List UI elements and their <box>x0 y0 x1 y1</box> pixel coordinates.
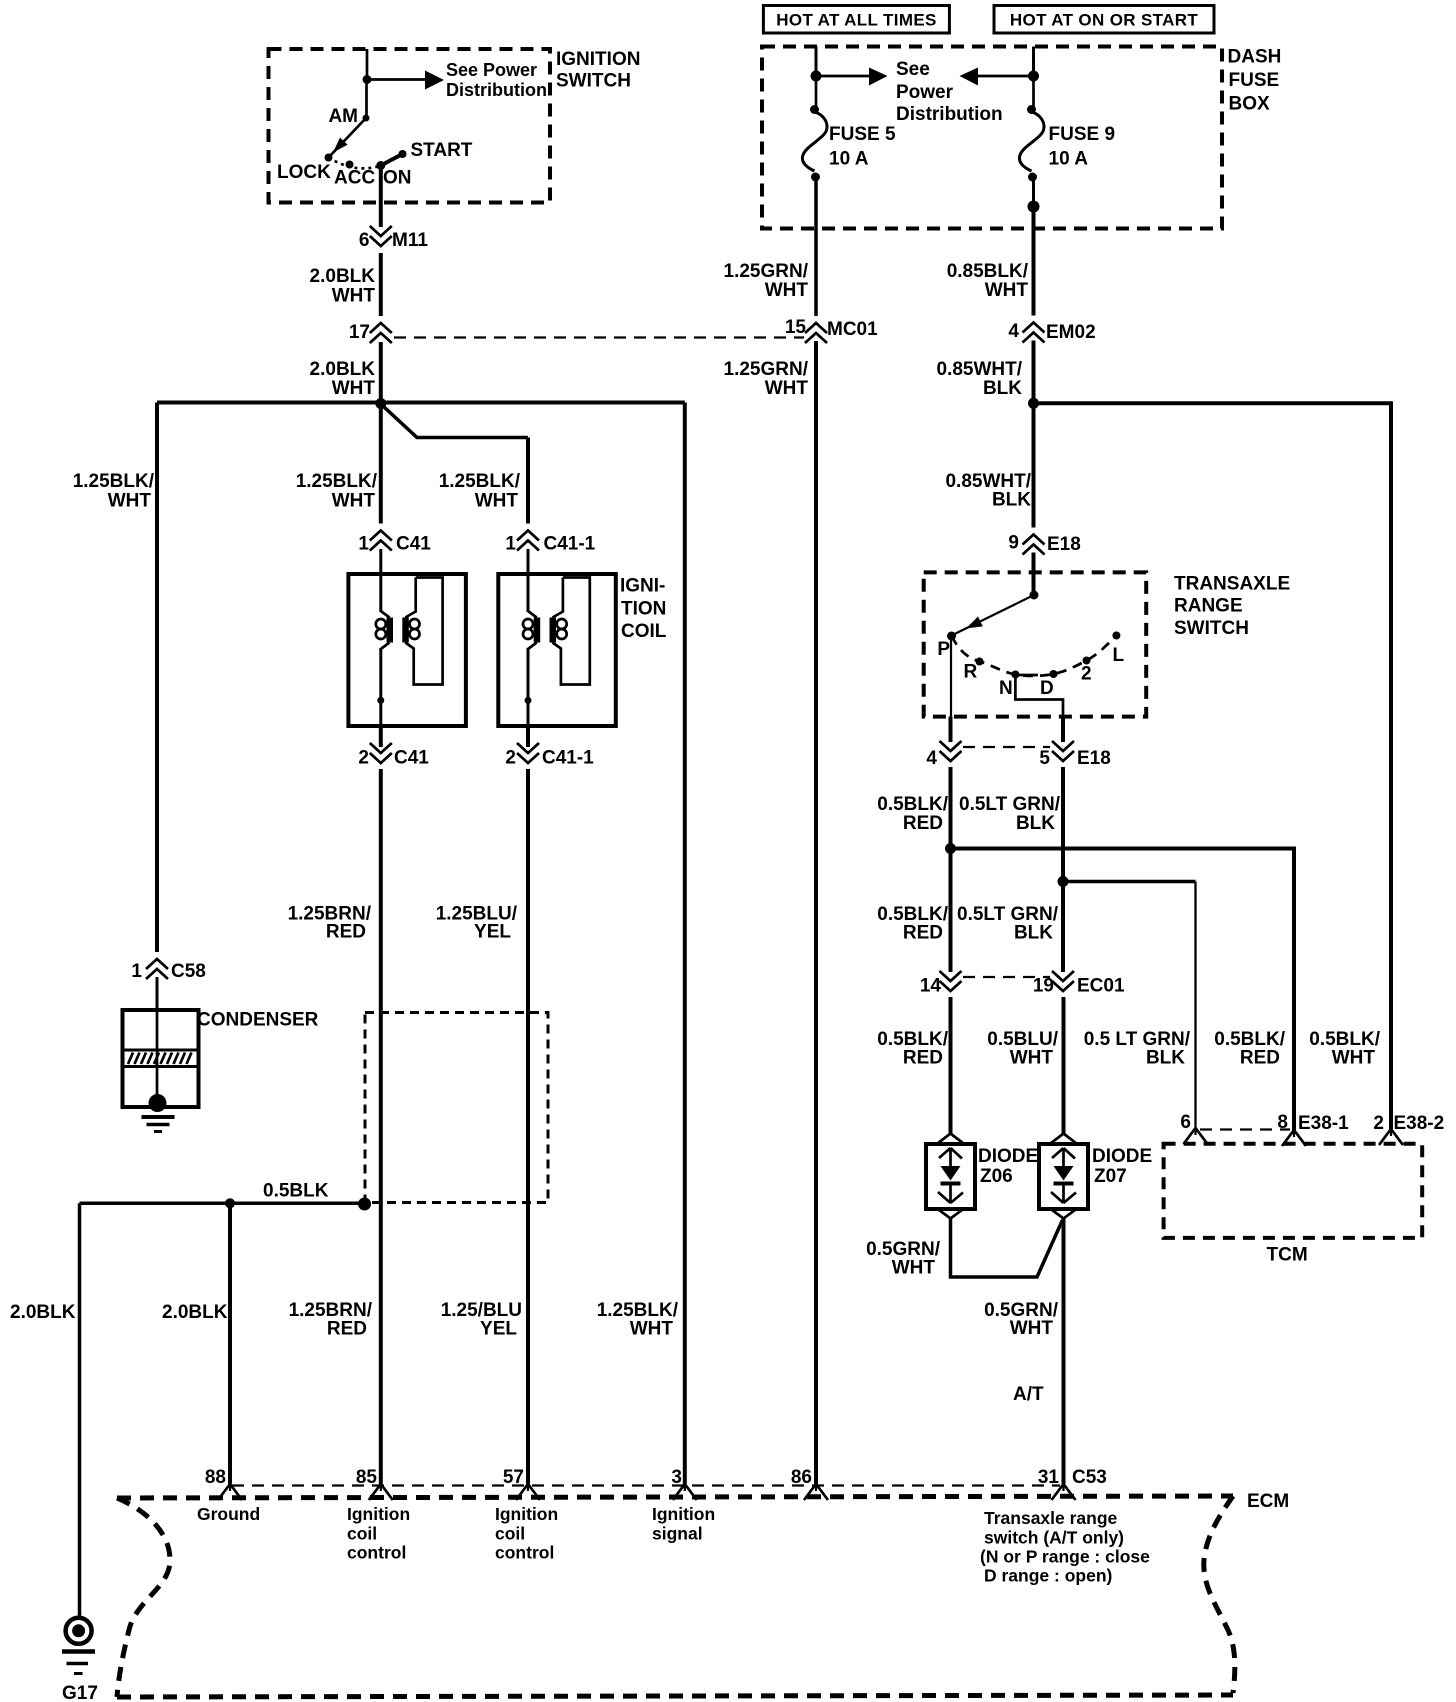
wire 0.5BLK/RED down from E18-4 <box>949 767 953 974</box>
svg-text:HOT AT ALL TIMES: HOT AT ALL TIMES <box>776 11 936 30</box>
svg-text:E38-1: E38-1 <box>1298 1113 1349 1134</box>
svg-text:0.5BLK: 0.5BLK <box>263 1181 329 1202</box>
connector C41-1 pin 1 <box>517 524 539 551</box>
wire N tail <box>1015 674 1038 677</box>
svg-text:Z06: Z06 <box>980 1166 1013 1187</box>
connector C41-1 pin 2 <box>517 743 539 770</box>
wire dashed selector arc <box>952 636 1117 676</box>
svg-text:control: control <box>495 1543 554 1563</box>
svg-text:C58: C58 <box>171 961 206 982</box>
connector C41 pin 2 <box>370 743 392 770</box>
connector M11 pin 6 <box>370 226 392 253</box>
svg-text:FUSE 9: FUSE 9 <box>1049 124 1116 145</box>
node branch junction to E38-1 pin 6 <box>1058 876 1069 887</box>
wire E18 into transaxle box <box>1032 553 1036 596</box>
svg-text:10 A: 10 A <box>1049 149 1089 170</box>
svg-text:2.0BLK: 2.0BLK <box>10 1302 76 1323</box>
svg-text:85: 85 <box>356 1467 378 1488</box>
node junction to ECM ground <box>225 1198 235 1208</box>
svg-text:0.5LT GRN/: 0.5LT GRN/ <box>959 794 1061 815</box>
node P <box>947 632 956 641</box>
svg-text:START: START <box>411 140 473 161</box>
ECM pin 88 <box>218 1484 242 1500</box>
wire 2.0BLK to ECM pin 88 <box>228 1203 232 1484</box>
svg-text:RED: RED <box>1240 1048 1280 1069</box>
svg-text:4: 4 <box>926 748 937 769</box>
svg-text:10 A: 10 A <box>829 149 869 170</box>
wire from box top to junction <box>366 49 369 80</box>
node R <box>976 658 984 666</box>
svg-text:BLK: BLK <box>983 378 1022 399</box>
TCM pin 8 E38-1 <box>1282 1130 1306 1146</box>
node LOCK <box>325 154 333 162</box>
svg-text:C53: C53 <box>1072 1467 1107 1488</box>
svg-text:See Power: See Power <box>446 60 537 80</box>
TCM box <box>1164 1144 1423 1266</box>
wire coil2 control to ECM pin 57 <box>526 769 530 1484</box>
svg-text:Distribution: Distribution <box>896 104 1003 125</box>
svg-text:0.5BLK/: 0.5BLK/ <box>877 794 948 815</box>
wire right drop to ECM pin 3 <box>683 403 687 1485</box>
svg-text:WHT: WHT <box>765 280 809 301</box>
svg-text:Distribution: Distribution <box>446 80 547 100</box>
wire coil1 control to ECM pin 85 <box>379 769 383 1484</box>
svg-text:C41: C41 <box>394 748 429 769</box>
fuse F9 <box>1032 76 1035 107</box>
svg-text:1: 1 <box>358 534 369 555</box>
wire branch to coil 2 <box>381 404 528 438</box>
svg-text:Transaxle range: Transaxle range <box>984 1508 1118 1528</box>
node entry <box>1030 591 1039 600</box>
svg-text:6: 6 <box>1180 1112 1191 1133</box>
wire to diode Z07 <box>1062 997 1066 1134</box>
wire coil2 feed <box>526 438 530 527</box>
ECM pin 85 <box>369 1484 393 1500</box>
svg-text:TCM: TCM <box>1267 1245 1308 1266</box>
node junction below fuse9 <box>1028 201 1040 213</box>
svg-text:L: L <box>1113 645 1125 666</box>
svg-text:coil: coil <box>495 1524 525 1544</box>
wire coil2 box to connector <box>526 726 530 747</box>
condenser C1 <box>123 1010 199 1112</box>
svg-text:A/T: A/T <box>1013 1384 1044 1405</box>
svg-text:2.0BLK: 2.0BLK <box>310 266 376 287</box>
svg-text:WHT: WHT <box>332 491 376 512</box>
svg-text:D: D <box>1040 678 1054 699</box>
dashed noise filter box <box>365 1013 548 1203</box>
transaxle switch internals <box>937 591 1124 749</box>
svg-text:R: R <box>964 662 978 683</box>
wire left drop to condenser <box>155 403 159 954</box>
svg-text:C41: C41 <box>396 534 431 555</box>
svg-text:WHT: WHT <box>1010 1048 1054 1069</box>
svg-text:BLK: BLK <box>1014 923 1053 944</box>
svg-text:15: 15 <box>785 317 807 338</box>
svg-text:WHT: WHT <box>1332 1048 1376 1069</box>
svg-text:signal: signal <box>652 1524 703 1544</box>
svg-text:LOCK: LOCK <box>277 162 331 183</box>
ignition coil T1 <box>348 574 466 726</box>
svg-text:5: 5 <box>1039 748 1050 769</box>
svg-text:ECM: ECM <box>1247 1491 1289 1512</box>
ignition switch box <box>269 49 641 203</box>
wire EM02 down <box>1032 341 1036 529</box>
svg-text:N: N <box>999 678 1013 699</box>
svg-text:WHT: WHT <box>332 286 376 307</box>
wire P contact drop <box>950 638 952 717</box>
wire Z06 output <box>951 1219 1063 1278</box>
svg-text:1.25GRN/: 1.25GRN/ <box>724 261 809 282</box>
svg-text:BLK: BLK <box>992 490 1031 511</box>
node fuse5 top junction <box>811 71 822 82</box>
node branch junction to E38-1 pin 8 <box>945 843 956 854</box>
svg-text:RED: RED <box>327 1319 367 1340</box>
wire main bus horizontal <box>157 401 685 405</box>
svg-text:WHT: WHT <box>765 378 809 399</box>
wire to diode Z06 <box>949 997 953 1134</box>
svg-text:FUSE: FUSE <box>1229 70 1280 91</box>
svg-text:RED: RED <box>903 923 943 944</box>
ground below condenser <box>142 1117 175 1132</box>
connector E18 pin 5 <box>1052 741 1074 768</box>
node AM <box>363 115 370 122</box>
wire dashed connector line EC01 <box>963 976 1050 978</box>
svg-text:2: 2 <box>1081 664 1092 685</box>
svg-text:2: 2 <box>1373 1113 1384 1134</box>
node 2 <box>1083 657 1091 665</box>
svg-text:WHT: WHT <box>892 1258 936 1279</box>
svg-text:control: control <box>347 1543 406 1563</box>
wire 0.5BLK horizontal <box>80 1202 365 1206</box>
node N <box>1011 671 1019 679</box>
svg-text:WHT: WHT <box>332 378 376 399</box>
svg-text:2.0BLK: 2.0BLK <box>162 1302 228 1323</box>
svg-text:IGNITION: IGNITION <box>556 49 640 70</box>
wire dashed bulkhead line 17 to MC01 <box>394 336 804 338</box>
connector 17 <box>370 316 392 343</box>
ground G17 <box>62 1618 98 1702</box>
connector E18 pin 4 <box>940 741 962 768</box>
hot at all times box <box>763 6 949 34</box>
svg-text:2: 2 <box>505 748 516 769</box>
node main bus junction <box>375 398 386 409</box>
wire coil1 box to connector <box>379 726 383 747</box>
svg-text:3: 3 <box>671 1467 682 1488</box>
svg-text:4: 4 <box>1008 321 1019 342</box>
hot at on or start box <box>994 6 1214 34</box>
ECM pin 86 <box>804 1484 828 1500</box>
node fuse9 top junction <box>1028 71 1039 82</box>
wire dashed connector line E18 <box>963 746 1050 748</box>
node ACC <box>346 161 354 169</box>
wire 0.5LT GRN/BLK down from E18-5 <box>1061 767 1065 974</box>
wire arrow see power distribution left <box>975 75 1034 78</box>
svg-text:Z07: Z07 <box>1094 1166 1127 1187</box>
wire see power distribution arrow <box>367 78 428 81</box>
svg-text:MC01: MC01 <box>827 319 878 340</box>
fuse 9 branch <box>960 47 1116 318</box>
svg-text:WHT: WHT <box>985 280 1029 301</box>
connector MC01 pin 15 <box>805 316 827 343</box>
svg-text:1.25BLK/: 1.25BLK/ <box>73 471 155 492</box>
svg-text:57: 57 <box>503 1467 524 1488</box>
svg-text:Ignition: Ignition <box>495 1504 558 1524</box>
svg-text:17: 17 <box>349 322 370 343</box>
svg-text:Ignition: Ignition <box>652 1504 715 1524</box>
svg-text:2.0BLK: 2.0BLK <box>310 359 376 380</box>
svg-text:DIODE: DIODE <box>1092 1146 1152 1167</box>
node end at filter box <box>358 1198 371 1211</box>
svg-text:1.25BLK/: 1.25BLK/ <box>439 471 521 492</box>
svg-text:YEL: YEL <box>474 922 511 943</box>
svg-text:86: 86 <box>791 1467 812 1488</box>
connector C58 pin 1 <box>146 952 168 979</box>
connector EC01 pin 19 <box>1052 971 1074 998</box>
wire MC01 down to ECM pin 86 <box>814 341 818 1484</box>
svg-text:BLK: BLK <box>1146 1048 1185 1069</box>
node L <box>1112 632 1120 640</box>
wire Z07 output to ECM pin 31 <box>1062 1219 1066 1485</box>
svg-text:G17: G17 <box>62 1683 98 1702</box>
wire branch to TCM pin 8 <box>951 849 1295 1131</box>
diode Z06 <box>926 1134 975 1219</box>
svg-text:RED: RED <box>903 1048 943 1069</box>
svg-text:WHT: WHT <box>630 1319 674 1340</box>
wire switch blade AM to LOCK <box>329 118 367 158</box>
ECM boundary <box>117 1491 1289 1697</box>
node D <box>1050 670 1058 678</box>
connector EC01 pin 14 <box>940 971 962 998</box>
svg-text:ACC: ACC <box>334 168 375 189</box>
svg-text:C41-1: C41-1 <box>544 534 596 555</box>
svg-text:C41-1: C41-1 <box>542 748 594 769</box>
svg-text:9: 9 <box>1008 533 1019 554</box>
svg-text:switch (A/T only): switch (A/T only) <box>984 1528 1124 1548</box>
svg-text:Power: Power <box>896 82 954 103</box>
svg-text:BLK: BLK <box>1016 813 1055 834</box>
wire fuse5 to MC01 <box>814 316 818 318</box>
transaxle range switch box <box>924 572 1290 716</box>
svg-text:COIL: COIL <box>621 621 667 642</box>
svg-text:E18: E18 <box>1077 748 1111 769</box>
connector EM02 pin 4 <box>1023 316 1045 343</box>
node START <box>399 150 407 158</box>
ECM pin 31 C53 <box>1052 1484 1076 1500</box>
svg-text:6: 6 <box>359 230 370 251</box>
node junction <box>363 75 372 84</box>
wire branch to TCM pin 6 <box>1063 880 1196 884</box>
svg-text:RANGE: RANGE <box>1174 596 1243 617</box>
svg-text:DIODE: DIODE <box>978 1146 1038 1167</box>
svg-text:YEL: YEL <box>480 1319 517 1340</box>
svg-text:WHT: WHT <box>108 491 152 512</box>
ignition switch internals <box>277 49 547 189</box>
svg-text:14: 14 <box>920 976 942 997</box>
svg-text:EC01: EC01 <box>1077 976 1125 997</box>
connector C41 pin 1 <box>370 524 392 551</box>
wire into coil2 <box>527 549 530 574</box>
TCM pin 6 E38-1 <box>1184 1128 1208 1144</box>
connector E18 pin 9 <box>1023 528 1045 555</box>
svg-text:BOX: BOX <box>1229 94 1271 115</box>
svg-text:0.85BLK/: 0.85BLK/ <box>947 261 1029 282</box>
svg-text:0.85WHT/: 0.85WHT/ <box>936 359 1022 380</box>
svg-text:D range : open): D range : open) <box>984 1566 1112 1586</box>
diode Z07 <box>1039 1134 1088 1219</box>
svg-text:RED: RED <box>326 922 366 943</box>
svg-text:TRANSAXLE: TRANSAXLE <box>1174 574 1290 595</box>
svg-text:SWITCH: SWITCH <box>556 71 631 92</box>
dash fuse box <box>762 47 1281 229</box>
svg-text:1.25BLK/: 1.25BLK/ <box>296 471 378 492</box>
svg-text:1.25GRN/: 1.25GRN/ <box>724 359 809 380</box>
svg-text:CONDENSER: CONDENSER <box>197 1010 319 1031</box>
ignition coil T2 <box>498 574 616 726</box>
TCM pin 2 E38-2 <box>1379 1129 1403 1145</box>
wire arrow see power distribution <box>816 75 872 78</box>
wire ignition switch output <box>379 166 383 404</box>
svg-text:1: 1 <box>505 534 516 555</box>
wire to AM contact <box>365 80 368 119</box>
node ON pivot <box>376 161 385 170</box>
wire dashed connector line C53 <box>232 1484 1060 1486</box>
svg-text:IGNI-: IGNI- <box>620 576 665 597</box>
ECM pin 57 <box>516 1484 540 1500</box>
svg-text:WHT: WHT <box>475 491 519 512</box>
wire wiper arm <box>952 595 1035 636</box>
wire dashed connector line E38-1 <box>1200 1128 1290 1130</box>
svg-text:Ignition: Ignition <box>347 1504 410 1524</box>
node branch junction to E38-2 <box>1028 398 1039 409</box>
svg-text:ON: ON <box>383 168 412 189</box>
svg-text:E38-2: E38-2 <box>1394 1113 1445 1134</box>
wire fuse9 out <box>1032 177 1035 207</box>
fuse 5 branch <box>802 47 1002 319</box>
svg-text:DASH: DASH <box>1228 47 1282 68</box>
svg-text:EM02: EM02 <box>1046 322 1096 343</box>
fuse F5 <box>815 76 818 107</box>
svg-text:E18: E18 <box>1047 534 1081 555</box>
svg-text:SWITCH: SWITCH <box>1174 618 1249 639</box>
wire N-D bracket <box>1015 675 1063 717</box>
wire blade ON to START <box>381 154 403 166</box>
svg-text:8: 8 <box>1277 1112 1288 1133</box>
wire C58 to condenser <box>156 977 159 1012</box>
svg-text:AM: AM <box>328 106 358 127</box>
wire dotted selector arc <box>329 158 381 169</box>
svg-text:P: P <box>937 639 950 660</box>
ECM pin 3 <box>673 1484 697 1500</box>
svg-text:1: 1 <box>131 961 142 982</box>
svg-text:(N or P range : close: (N or P range : close <box>980 1547 1150 1567</box>
svg-text:19: 19 <box>1033 976 1054 997</box>
svg-text:88: 88 <box>205 1467 226 1488</box>
wire fuse5 out <box>814 177 818 318</box>
wire 2.0BLK to G17 <box>78 1203 82 1618</box>
wire branch to far right <box>1034 403 1392 1129</box>
svg-text:M11: M11 <box>392 230 428 251</box>
svg-text:2: 2 <box>358 748 369 769</box>
svg-text:FUSE 5: FUSE 5 <box>829 124 896 145</box>
wire coil1 feed <box>379 404 383 527</box>
svg-text:Ground: Ground <box>197 1504 260 1524</box>
svg-text:31: 31 <box>1038 1467 1060 1488</box>
svg-text:coil: coil <box>347 1524 377 1544</box>
svg-text:WHT: WHT <box>1010 1318 1054 1339</box>
svg-text:See: See <box>896 59 930 80</box>
svg-text:HOT AT ON OR START: HOT AT ON OR START <box>1010 11 1199 30</box>
svg-text:RED: RED <box>903 813 943 834</box>
wire into coil1 <box>379 549 382 574</box>
svg-text:TION: TION <box>621 599 666 620</box>
